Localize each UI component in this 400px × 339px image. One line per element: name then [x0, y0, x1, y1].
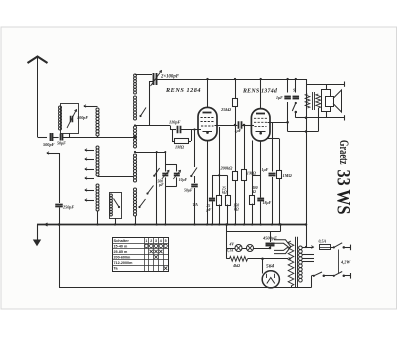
- heater winding arrows: [274, 240, 291, 254]
- bottom rail: [59, 287, 312, 289]
- switch link: [338, 250, 340, 274]
- antenna coil L1 with trimmer: [61, 104, 79, 134]
- coupling coil L2: [96, 108, 99, 111]
- svg-text:18µF: 18µF: [263, 201, 272, 205]
- top bus wire: [157, 79, 307, 81]
- speaker voice coil: [326, 97, 334, 107]
- switch blade lower: [148, 186, 154, 194]
- svg-text:50pF: 50pF: [57, 141, 66, 146]
- wire antenna to input caps: [38, 137, 48, 139]
- screen resistor 200k: [235, 107, 237, 171]
- rectifier tube 564: [262, 271, 279, 288]
- grid capacitor 110pF: [170, 129, 176, 131]
- TA switch blade: [191, 168, 197, 177]
- dial lamp 2: [247, 245, 254, 252]
- switch table: [113, 238, 169, 272]
- lamp wire: [227, 248, 271, 250]
- svg-text:S: S: [293, 88, 296, 93]
- upper lamp wire: [227, 231, 281, 233]
- ground arrow at bus end: [37, 225, 39, 242]
- voltage divider 4kOhm: [227, 258, 230, 260]
- mains taps: [302, 247, 313, 249]
- padder capacitor 500pF: [162, 173, 168, 175]
- switch blade on chain: [141, 108, 147, 117]
- svg-text:200-600m: 200-600m: [114, 256, 132, 260]
- output transformer winding 2: [316, 94, 321, 108]
- tube2 cathode resistor 400 Ohm: [252, 141, 254, 196]
- svg-text:4: 4: [160, 239, 162, 243]
- contact arrow coupling coil: [84, 106, 92, 108]
- wire: [53, 137, 59, 139]
- rectifier drop: [261, 258, 264, 261]
- anode resistor 25k from top bus: [235, 79, 237, 99]
- output transformer winding 1: [305, 94, 310, 108]
- svg-text:4V: 4V: [229, 242, 235, 246]
- left drop to bottom rail: [58, 223, 61, 226]
- svg-text:712-2000m: 712-2000m: [114, 261, 134, 265]
- wire 250pF through bus to bottom rail: [59, 208, 61, 288]
- switch S branch: [295, 79, 297, 93]
- svg-text:Ω: Ω: [253, 190, 256, 194]
- svg-text:2: 2: [150, 239, 152, 243]
- svg-text:1MΩ: 1MΩ: [247, 171, 257, 176]
- svg-text:1µF: 1µF: [235, 129, 242, 133]
- svg-text:100pF: 100pF: [77, 115, 88, 120]
- mains switch pole 2: [334, 272, 342, 276]
- svg-text:3: 3: [155, 239, 157, 243]
- svg-text:1µF: 1µF: [276, 96, 283, 100]
- speaker terminal wires: [306, 84, 344, 86]
- wire transformer bottom: [288, 131, 319, 133]
- svg-text:µF: µF: [158, 183, 164, 187]
- tap wire: [98, 176, 134, 178]
- coil L3b: [96, 184, 99, 187]
- transformer primary zigzag: [288, 241, 294, 286]
- wire to tube2 grid: [241, 125, 254, 127]
- tap wire to grid circuit: [134, 124, 136, 126]
- switch contact to 250pF branch: [47, 153, 59, 155]
- mains switch pole 2 first contact: [312, 275, 314, 277]
- tube1 cathode wire: [207, 140, 209, 224]
- Graetz 33 WS title: [337, 140, 351, 165]
- pole2 riser: [311, 276, 313, 288]
- svg-text:4kΩ: 4kΩ: [232, 263, 240, 268]
- coil L3a: [96, 146, 99, 149]
- svg-text:564: 564: [266, 264, 274, 270]
- decoupling cap 1uF: [272, 122, 274, 171]
- svg-text:kΩ: kΩ: [234, 208, 239, 212]
- coupling capacitor: [238, 121, 240, 129]
- tube RENS 1374d: [251, 79, 270, 141]
- oscillator coil chain: [134, 74, 137, 77]
- main chassis bus: [37, 224, 306, 226]
- capacitor 250pF: [55, 204, 63, 206]
- svg-text:4,2W: 4,2W: [340, 260, 351, 265]
- lamp circuit rail: [225, 223, 228, 226]
- speaker coupling branch: [287, 79, 289, 93]
- speaker cone: [333, 90, 342, 112]
- wire cap to tube grid: [180, 129, 201, 131]
- dial lamp 1: [235, 245, 242, 252]
- bias resistor box A: [219, 175, 221, 195]
- svg-text:200kΩ: 200kΩ: [220, 165, 234, 170]
- plate wire tube1: [215, 125, 238, 127]
- svg-text:1: 1: [145, 239, 147, 243]
- svg-text:µF: µF: [206, 208, 212, 212]
- switch blade lowest: [140, 199, 146, 207]
- grid resistor 1M tube2: [243, 124, 246, 127]
- wire down to 250pF: [59, 153, 61, 203]
- svg-text:RENS 1284: RENS 1284: [165, 87, 201, 94]
- rectifier filament wire: [248, 258, 289, 260]
- mains switch pole 1: [334, 243, 342, 248]
- padder loop bottom: [165, 177, 167, 186]
- speaker magnet frame: [322, 90, 331, 112]
- grid return resistor 1M: [268, 138, 280, 140]
- svg-text:Graetz: Graetz: [337, 140, 351, 165]
- tube RENS 1284: [198, 79, 217, 141]
- svg-text:1MΩ: 1MΩ: [283, 173, 293, 178]
- capacitor 50uF: [194, 176, 196, 183]
- bridge: [252, 175, 261, 177]
- svg-text:110pF: 110pF: [169, 120, 181, 125]
- antenna: [28, 57, 48, 64]
- padder capacitor 10uF: [174, 173, 180, 175]
- grid leak 1MOhm: [172, 130, 174, 142]
- svg-text:Schalter: Schalter: [114, 238, 130, 243]
- tube1 grid return: [193, 128, 195, 130]
- svg-text:1MΩ: 1MΩ: [175, 145, 185, 150]
- wire input to coil block: [63, 137, 135, 139]
- capacitor 50pF: [60, 134, 62, 141]
- wire top left of 2x100pF: [135, 74, 152, 76]
- svg-text:25kΩ: 25kΩ: [220, 107, 232, 112]
- reaction coil in loop: [110, 193, 122, 219]
- tube2 cathode cap 18uF: [260, 141, 262, 198]
- padder loop: [165, 152, 167, 172]
- bias resistor box B: [227, 175, 229, 195]
- svg-text:0,1A: 0,1A: [227, 248, 234, 252]
- vertical from padder: [149, 81, 151, 126]
- svg-text:50µF: 50µF: [184, 189, 193, 193]
- padder capacitor 2x100pF: [153, 73, 155, 85]
- svg-text:RENS 1374d: RENS 1374d: [242, 89, 278, 95]
- svg-text:2×100pF: 2×100pF: [160, 75, 180, 80]
- svg-text:kΩ: kΩ: [222, 191, 227, 195]
- svg-text:25-85 m: 25-85 m: [114, 250, 128, 254]
- band switch line: [156, 152, 158, 225]
- transformer secondary winding: [299, 246, 303, 250]
- svg-text:500pF: 500pF: [43, 142, 55, 147]
- band selector contact arrows: [85, 150, 94, 152]
- capacitor 500pF: [50, 133, 52, 141]
- terminal arrow on bus: [45, 223, 48, 226]
- wire coil block to main wire: [69, 133, 71, 137]
- svg-text:10µF: 10µF: [179, 178, 188, 182]
- svg-text:33 WS: 33 WS: [333, 170, 354, 215]
- tube2 plate lead: [268, 122, 288, 124]
- svg-text:1µF: 1µF: [262, 168, 269, 172]
- svg-text:15-40 m: 15-40 m: [114, 244, 128, 248]
- cathode bypass cap 25uF: [212, 175, 214, 197]
- svg-text:5: 5: [165, 239, 167, 243]
- svg-text:TA: TA: [193, 202, 198, 207]
- svg-text:250pF: 250pF: [62, 205, 74, 210]
- power transformer core: [295, 237, 297, 288]
- long B+ vertical: [306, 79, 308, 247]
- riser to bias bracket: [219, 127, 221, 175]
- speaker stubs: [326, 84, 328, 90]
- tap wire 2: [134, 151, 136, 153]
- svg-text:0,5A: 0,5A: [319, 239, 327, 244]
- bias bracket: [212, 175, 227, 177]
- switch blade on band line: [154, 168, 159, 176]
- transformer core: [312, 92, 314, 110]
